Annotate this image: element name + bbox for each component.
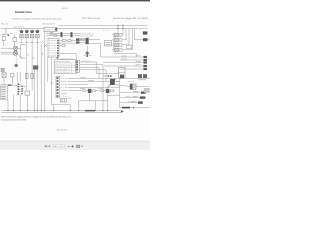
page background <box>0 0 150 150</box>
fuse F5 <box>31 73 34 78</box>
relay K7 <box>130 84 136 89</box>
wire: SL1 legs to bus <box>34 70 37 111</box>
connector group G3: crown <box>30 30 34 33</box>
CN3 pin labels <box>61 77 69 98</box>
wire: CN4 out 4 <box>80 70 106 82</box>
svg-text:(S/N 20001 and up): (S/N 20001 and up) <box>82 17 100 20</box>
wire: CN3 out 3 <box>68 83 88 85</box>
wire: CN-A out 1c <box>71 40 76 42</box>
wire: K8 drop <box>3 77 5 84</box>
connector ticks <box>108 75 110 77</box>
connector end G1 <box>141 91 146 93</box>
component: solenoid SL1 <box>33 65 38 69</box>
wire: fan 5 <box>120 68 143 70</box>
wire: CN-A out low <box>60 54 77 61</box>
fuse F4 <box>26 73 29 78</box>
component: horn H1 <box>15 64 18 67</box>
connector pair CP1 <box>138 74 142 78</box>
component: diode block <box>61 99 67 102</box>
wire: fan g1 <box>120 92 141 94</box>
component: comp B (dark) <box>143 38 147 41</box>
wire: arrow feed <box>86 46 88 51</box>
wire: G4 feed <box>36 28 38 30</box>
solenoid valve SV2 <box>106 89 110 93</box>
wire: fan 3 <box>103 62 143 64</box>
component: comp A (dark) <box>143 31 148 34</box>
component: connector pair SW2 <box>8 84 10 86</box>
table rows text <box>55 60 70 73</box>
wire: X1 out <box>18 45 26 59</box>
wire: fan 2 <box>120 59 143 61</box>
wire: drop x123 with junction <box>121 25 124 35</box>
label G3 <box>31 41 34 44</box>
wire: table drop to bus <box>7 100 9 111</box>
wire: bus lower <box>2 111 122 113</box>
wire: row y35.5 mid <box>63 35 71 37</box>
component: G4 switch box <box>36 34 39 38</box>
component: fuse box FB1 <box>44 27 57 31</box>
connector cluster CN5 column A <box>18 83 20 95</box>
wire: row y33.5 mid <box>63 33 71 35</box>
wire: top bus B <box>58 24 148 26</box>
component: junction box JB1 <box>25 91 30 95</box>
wire: diagonal to K7 <box>115 85 130 87</box>
component: G1 switch box <box>20 34 23 38</box>
component: inline box B3 <box>62 44 65 46</box>
wire: row y35.5 <box>46 35 62 37</box>
CN-A row labels <box>49 39 58 57</box>
wire: CN4 out 3 <box>80 67 99 78</box>
wire: JB1 down <box>26 95 28 110</box>
connector cluster CN5 column B <box>21 85 23 94</box>
component: G2 switch box <box>25 34 28 38</box>
wire: y39.5 right <box>89 39 100 41</box>
junction block J1 <box>8 35 10 37</box>
wire: fan g3 <box>120 102 138 104</box>
solenoid valve SV1 <box>88 89 92 93</box>
label under pair <box>138 78 145 81</box>
wire: CN-A out 2 <box>59 42 76 44</box>
wire: fuse outs <box>27 78 32 90</box>
wire: feed X2 upper <box>1 51 14 53</box>
label SV1 <box>81 87 86 90</box>
toolbar: zoom out button <box>68 145 70 148</box>
connector pair CPa <box>76 39 79 41</box>
wire: G3 feed <box>31 28 33 30</box>
tick on g4 <box>133 107 134 109</box>
toolbar: prev page button <box>48 145 49 147</box>
wire: cluster ties <box>19 84 21 92</box>
wire: CN4 out 1 <box>80 62 120 74</box>
label G1 <box>20 41 23 44</box>
component: fuse F6 <box>11 73 14 77</box>
labels before flags <box>136 56 141 66</box>
wire: CN-A out 3 <box>59 45 62 47</box>
wire: drop x6 <box>5 28 7 34</box>
wire: CN5 drops <box>13 95 20 111</box>
relay bank rail <box>113 33 115 52</box>
table: wire color legend <box>1 86 8 100</box>
label G2 <box>25 41 28 44</box>
wire: CN-A out 1b <box>66 40 68 42</box>
wire: K7 out <box>136 86 150 88</box>
wire: CN3 out 4 <box>68 89 80 91</box>
wire: feed X2 lower <box>1 53 14 55</box>
component: small box SB1 <box>126 45 131 48</box>
component: G3 switch box <box>30 34 33 38</box>
bus arrow end <box>121 110 124 113</box>
toolbar: page number box <box>51 145 57 148</box>
toolbar: zoom value box <box>59 145 64 148</box>
flag label marks <box>131 91 138 102</box>
connector group G1: crown <box>20 30 24 33</box>
wire: drop x103 continues to bus <box>102 76 104 111</box>
connector tick on FB1 <box>55 28 57 31</box>
wire: drop x51.6 <box>51 57 53 105</box>
bus thick segment <box>85 110 95 112</box>
wire: top bus A <box>1 27 148 29</box>
wire: feed X1 <box>1 47 14 49</box>
connector circle X1 <box>13 46 17 50</box>
wire code mark c <box>41 53 44 56</box>
wire: bank bottom out <box>114 53 136 57</box>
wire: comp B out <box>147 39 149 41</box>
wire: CN-A out 1 <box>59 40 62 42</box>
wire: diagonal out <box>17 54 23 59</box>
component: diode D1 <box>2 36 5 40</box>
wire: spur to comp B <box>135 28 143 39</box>
junction dot x123 <box>122 25 123 26</box>
component: ignition switch <box>110 79 115 85</box>
component: relay box K5 <box>105 41 112 47</box>
wire: RB3 feed <box>122 28 129 44</box>
wire: feed g2 <box>108 94 120 96</box>
svg-text:Refer to page 60-14 (2/2): Refer to page 60-14 (2/2) <box>113 17 148 20</box>
wire: bottom bend <box>52 105 71 111</box>
wire: fan 4 <box>104 65 143 67</box>
connector circle X2 <box>13 51 17 55</box>
svg-text:NOTE: Machines equipped with a: NOTE: Machines equipped with air conditi… <box>1 115 72 118</box>
connector pair CPb <box>76 41 79 43</box>
wire code mark b <box>32 57 35 60</box>
wire: drop x20.2 <box>19 72 21 82</box>
component: lever switch SW1 (up arrow) <box>85 51 90 54</box>
wire: CN3 out 1 <box>68 77 150 79</box>
connector group G4: crown <box>35 30 39 33</box>
table: connector chart <box>54 60 77 73</box>
connector pair CP2 <box>143 74 147 78</box>
connector block CN3 <box>56 76 60 98</box>
wire: CN3 out 2 <box>68 80 120 82</box>
wire: G3 drop to fuse <box>31 38 33 74</box>
relay RB2 <box>115 38 118 42</box>
wire: fan g4 <box>120 107 150 109</box>
svg-text:12V 5A BR: 12V 5A BR <box>80 35 94 38</box>
relay RB1 <box>115 33 118 37</box>
CN-A pin marks <box>57 40 58 56</box>
wire: feed from table <box>1 84 9 86</box>
connector end E4 <box>143 65 147 67</box>
wire: y42.6 <box>79 42 85 44</box>
relay K8 <box>2 73 6 78</box>
wire: dashed drop <box>15 56 17 64</box>
label SV2 <box>99 87 104 90</box>
connector end E2 <box>143 59 147 61</box>
wire: y39.5 <box>79 39 85 41</box>
label above fan wire 2 <box>121 58 127 61</box>
wire: long row y87.4 <box>68 86 120 88</box>
svg-text:Schematic circuit diagram for: Schematic circuit diagram for machines w… <box>12 17 62 20</box>
component: flasher unit <box>118 67 125 77</box>
wire: CN4 out 2 <box>80 65 112 76</box>
wire: SV2 legs <box>98 91 115 101</box>
wire: F6 drop <box>11 77 13 85</box>
wire: fan g2 <box>120 97 140 99</box>
label block on g4 (thick) <box>122 107 130 109</box>
wire: row right <box>73 34 81 36</box>
svg-text:60-13 (1/2): 60-13 (1/2) <box>57 128 67 131</box>
wire: row y33.5 <box>46 33 62 35</box>
label cluster <box>23 85 25 88</box>
svg-text:manufactured from S/N 20001.: manufactured from S/N 20001. <box>1 118 27 121</box>
wire: drop x41.2 <box>40 44 42 111</box>
viewer top edge bar <box>0 0 150 1</box>
component: resistor R1 <box>13 38 16 42</box>
wire: RB4 feed <box>122 28 132 49</box>
connector end G2 <box>140 96 145 98</box>
connector group G2: crown <box>25 30 29 33</box>
svg-text:Fig. 60: Fig. 60 <box>1 22 9 25</box>
svg-text:60-13: 60-13 <box>62 7 69 10</box>
wire: D1 leads <box>3 34 5 46</box>
toolbar: first page button <box>45 145 50 147</box>
component: plug P1 <box>120 75 124 79</box>
wire: G1 drop <box>21 38 23 42</box>
label G4 <box>36 41 39 44</box>
relay RB4 <box>115 48 118 52</box>
tiny text by diode <box>68 97 72 100</box>
wire: solenoid common <box>79 101 108 111</box>
wire: horizontal feed <box>1 33 9 35</box>
component: inline box B1 <box>62 40 66 42</box>
connector end G3 <box>138 101 143 103</box>
component: inline box B4 <box>77 38 80 40</box>
component: splice ticks <box>50 33 57 37</box>
component: resistor plate <box>144 88 149 92</box>
wire code label b <box>88 79 94 82</box>
component: connector blob <box>86 38 89 44</box>
connector block CN-A <box>48 39 59 58</box>
connector mark under CN-A <box>57 57 59 58</box>
component: inline box B2 <box>68 40 71 42</box>
connector bar CN1b <box>71 32 73 37</box>
connector end E1 <box>143 56 147 58</box>
wire: SW1 side ticks <box>83 54 91 56</box>
label tiny <box>10 32 13 35</box>
wire: G2 drop to fuse <box>26 38 28 74</box>
wire: FB1 left leg <box>44 32 46 111</box>
wire: SV1 legs <box>80 91 97 101</box>
connector end E5 <box>143 68 147 70</box>
wire: SW2 to cluster <box>11 84 17 86</box>
wire: G1 feed <box>21 28 23 30</box>
wire: long drop x119.6 <box>119 78 121 107</box>
wire: to corner drop <box>89 44 101 58</box>
wire: R1 leads <box>14 34 16 46</box>
bus junction dots <box>7 110 108 111</box>
toolbar: zoom in button <box>71 145 74 148</box>
label above fuse box <box>42 23 55 26</box>
junction dot x118 <box>117 25 118 26</box>
component: inline box B5 <box>81 38 84 40</box>
wire: fan 1 <box>101 56 144 58</box>
wire: corner stub <box>21 57 26 59</box>
wire: G2 feed <box>26 28 28 30</box>
toolbar: menu button <box>76 145 80 148</box>
relay RB3 <box>115 43 118 47</box>
wires: relay bank feeds <box>114 28 143 57</box>
connector block CN4 <box>76 60 80 72</box>
svg-text:Schematic Circuit: Schematic Circuit <box>15 11 32 14</box>
wire code label a <box>80 76 86 79</box>
label above fan wire 1 <box>121 55 127 58</box>
wire: bus upper <box>2 110 122 112</box>
connector end E3 <box>143 61 147 63</box>
junction X mark <box>44 44 46 46</box>
connector bar CN1a <box>61 32 63 37</box>
wire: RB2 feed <box>122 28 126 39</box>
svg-text:75%: 75% <box>60 145 64 148</box>
component: ground strap plate <box>1 68 4 71</box>
wire: drop x17.2 <box>16 72 18 82</box>
junction X mark <box>51 82 53 84</box>
wire: drop x118 with junction <box>117 25 119 33</box>
toolbar: tiny right mark <box>81 146 82 147</box>
wire: drop x47.8 <box>47 57 49 82</box>
wire code mark a <box>27 54 30 57</box>
wire: G4 drop to solenoid <box>36 38 38 66</box>
